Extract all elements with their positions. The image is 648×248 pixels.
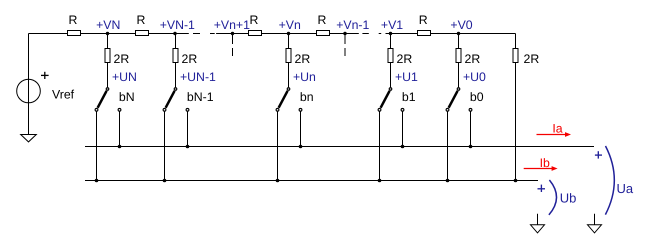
wire: switch b1 right throw to Ia rail [402, 111, 404, 146]
wire: switch bn left throw to Ib rail [277, 111, 279, 180]
junction dot on Ia rail (column bN) [118, 145, 122, 149]
resistor 2R (termination) [513, 49, 518, 63]
ground (below Vref) [21, 135, 37, 142]
svg-text:R: R [318, 13, 327, 27]
wire: switch bN-1 right throw to Ia rail [187, 111, 189, 146]
wire: node to 2R (column bN) [107, 34, 109, 49]
svg-text:bn: bn [300, 90, 314, 104]
svg-text:Ia: Ia [552, 122, 562, 136]
junction dot on Ib rail (column b0) [446, 179, 450, 183]
svg-text:+VN: +VN [96, 18, 120, 32]
svg-text:2R: 2R [524, 52, 540, 66]
svg-text:+U0: +U0 [463, 70, 486, 84]
junction dot on Ib rail (column b1) [378, 179, 382, 183]
junction dot on Ib rail (column bn) [276, 179, 280, 183]
resistor 2R (column b0) [456, 49, 461, 63]
voltage source Vref [17, 79, 41, 103]
svg-text:+Vn-1: +Vn-1 [336, 18, 369, 32]
node V0 junction dot [457, 32, 460, 35]
wire: node to 2R (column bn) [288, 34, 290, 49]
resistor R (top ladder #4) [317, 31, 330, 36]
wire: 2R to switch pivot (column bN) [107, 63, 109, 88]
svg-text:bN-1: bN-1 [187, 90, 214, 104]
svg-text:Vref: Vref [52, 88, 75, 102]
junction dot on Ia rail (column b0) [469, 145, 473, 149]
junction dot termination on Ib rail [514, 179, 518, 183]
wire: termination 2R down to Ib rail [515, 63, 517, 181]
wire: node to 2R (column b0) [458, 34, 460, 49]
svg-text:+V1: +V1 [381, 18, 403, 32]
resistor 2R (column b1) [388, 49, 393, 63]
svg-text:R: R [419, 13, 428, 27]
resistor 2R (column bN) [105, 49, 110, 63]
node Vn junction dot [287, 32, 290, 35]
wire: dashed continuation between VN-1 and Vn+1 [193, 33, 200, 35]
wire: V0 to termination corner and down [515, 34, 517, 49]
svg-text:+UN-1: +UN-1 [180, 70, 216, 84]
wire: switch b1 left throw to Ib rail [379, 111, 381, 180]
wire: switch bN-1 left throw to Ib rail [164, 111, 166, 180]
svg-text:+V0: +V0 [450, 18, 472, 32]
switch bN [98, 91, 107, 108]
resistor R (top ladder #3) [249, 31, 262, 36]
node Vn+1 junction dot [231, 32, 234, 35]
svg-text:+Vn: +Vn [279, 18, 301, 32]
svg-text:Ua: Ua [617, 181, 634, 196]
svg-text:2R: 2R [465, 52, 481, 66]
wire: node to 2R (column b1) [390, 34, 392, 49]
wire: dashed continuation between Vn-1 and V1 [362, 33, 368, 35]
svg-text:b0: b0 [470, 90, 484, 104]
node V1 junction dot [389, 32, 392, 35]
arc Ub voltage brace [549, 180, 557, 215]
wire: 2R to switch pivot (column b0) [458, 63, 460, 88]
node VN-1 junction dot [173, 32, 176, 35]
svg-text:+VN-1: +VN-1 [160, 18, 195, 32]
wire: switch bN right throw to Ia rail [119, 111, 121, 146]
junction dot on Ia rail (column bn) [299, 145, 303, 149]
svg-text:+Vn+1: +Vn+1 [214, 18, 250, 32]
wire: Vref vertical (top rail down through source to ground) [28, 34, 30, 135]
svg-text:2R: 2R [114, 52, 130, 66]
wire: top rail segment from V1 to termination corner [386, 33, 516, 35]
node Vn-1 junction dot [343, 32, 346, 35]
label + (Ub polarity) [538, 188, 546, 190]
svg-text:2R: 2R [295, 52, 311, 66]
resistor 2R (column bn) [286, 49, 291, 63]
resistor R (top ladder #5) [418, 31, 431, 36]
svg-text:Ub: Ub [560, 191, 577, 206]
svg-text:R: R [137, 13, 146, 27]
wire: dashed continuation stub below node at x=232.5 [232, 34, 234, 45]
arc Ua voltage brace [605, 146, 614, 215]
switch b1 [381, 91, 390, 108]
node VN junction dot [106, 32, 109, 35]
junction dot on Ib rail (column bN) [95, 179, 99, 183]
svg-text:2R: 2R [182, 52, 198, 66]
svg-text:b1: b1 [402, 90, 416, 104]
junction dot on Ib rail (column bN-1) [163, 179, 167, 183]
wire: 2R to switch pivot (column bn) [288, 63, 290, 88]
switch b0 [449, 91, 458, 108]
label + (Ua polarity) [595, 154, 602, 156]
switch bN-1 [166, 91, 175, 108]
wire: 2R to switch pivot (column b1) [390, 63, 392, 88]
wire: node to 2R (column bN-1) [175, 34, 177, 49]
wire: 2R to switch pivot (column bN-1) [175, 63, 177, 88]
svg-text:+Un: +Un [293, 70, 316, 84]
wire: Ib rail [85, 180, 538, 182]
svg-text:+UN: +UN [112, 70, 137, 84]
ground (Ua reference) [594, 214, 596, 226]
wire: Ia rail [85, 146, 594, 148]
switch bn [279, 91, 288, 108]
svg-text:bN: bN [119, 90, 135, 104]
wire: switch b0 left throw to Ib rail [447, 111, 449, 180]
svg-text:+U1: +U1 [395, 70, 418, 84]
wire: top rail segment from Vref corner to node VN-1 [29, 33, 189, 35]
resistor R (top ladder #1) [68, 31, 81, 36]
resistor R (top ladder #2) [136, 31, 149, 36]
svg-text:R: R [250, 13, 259, 27]
wire: switch bn right throw to Ia rail [300, 111, 302, 146]
wire: top rail segment from Vn+1 to Vn-1 [216, 33, 359, 35]
wire: switch bN left throw to Ib rail [96, 111, 98, 180]
wire: switch b0 right throw to Ia rail [470, 111, 472, 146]
svg-text:2R: 2R [397, 52, 413, 66]
resistor 2R (column bN-1) [173, 49, 178, 63]
junction dot on Ia rail (column bN-1) [186, 145, 190, 149]
ground (Ub reference) [537, 214, 539, 226]
wire: dashed continuation stub below node at x=345 [344, 34, 346, 45]
junction dot on Ia rail (column b1) [401, 145, 405, 149]
svg-text:R: R [69, 13, 78, 27]
